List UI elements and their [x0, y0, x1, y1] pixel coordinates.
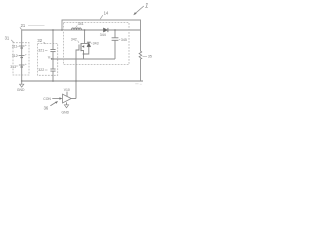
- svg-text:1: 1: [145, 4, 148, 10]
- svg-text:35: 35: [148, 55, 152, 59]
- channel bar: [80, 43, 82, 51]
- mosfet arrow: [82, 45, 84, 48]
- svg-text:341: 341: [78, 22, 84, 26]
- label 36 arrow: [44, 105, 49, 110]
- faint marks: [135, 83, 138, 85]
- wire load loop top: [62, 20, 141, 51]
- dashed box 34 booster: [64, 23, 130, 65]
- label 31: [5, 36, 10, 41]
- svg-text:344: 344: [100, 33, 106, 37]
- svg-text:GND: GND: [17, 88, 25, 92]
- svg-text:21: 21: [21, 23, 26, 28]
- source lead: [81, 51, 84, 60]
- gate bar: [78, 45, 80, 51]
- svg-text:342: 342: [71, 37, 77, 41]
- svg-text:322: 322: [38, 68, 44, 72]
- wire capacitor divider: [52, 30, 54, 50]
- svg-text:31: 31: [5, 36, 10, 41]
- wire battery string: [21, 46, 23, 81]
- svg-text:CON: CON: [43, 97, 51, 101]
- cell 312: [19, 55, 25, 57]
- node V with arrow: [48, 56, 51, 60]
- CON input arrow: [43, 97, 51, 101]
- svg-text:+: +: [25, 53, 27, 57]
- capacitor 322: [50, 68, 55, 70]
- svg-text:311: 311: [12, 44, 18, 48]
- wire top bus node 21: [22, 30, 141, 46]
- junction dot battery/gnd: [21, 80, 23, 82]
- label 14: [104, 10, 109, 15]
- capacitor 321: [50, 49, 55, 51]
- figure pointer 1: [135, 6, 144, 14]
- label V10: [64, 88, 70, 92]
- svg-text:321: 321: [38, 49, 44, 53]
- node dot at 62,30: [61, 29, 63, 31]
- bottom bus: [22, 80, 143, 82]
- resistor 35: [139, 51, 142, 59]
- inductor 341: [72, 28, 82, 30]
- svg-text:14: 14: [104, 10, 109, 15]
- dashed box 32: [38, 44, 58, 76]
- svg-text:GND: GND: [62, 110, 70, 114]
- svg-text:343: 343: [93, 42, 99, 46]
- svg-text:+: +: [25, 62, 27, 66]
- drain lead: [81, 43, 89, 45]
- cell 311: [19, 45, 25, 47]
- wire V node return line: [53, 58, 115, 60]
- wire V10 stub: [66, 92, 68, 97]
- svg-text:V: V: [48, 56, 51, 60]
- driver buffer triangle: [63, 94, 72, 103]
- svg-text:345: 345: [121, 38, 127, 42]
- mosfet 342: [71, 37, 77, 41]
- diode 343 body: [87, 41, 91, 43]
- gate wire from driver: [76, 50, 79, 99]
- label 32: [37, 38, 42, 43]
- ground buffer: [66, 102, 68, 104]
- wire buffer output: [71, 98, 76, 100]
- svg-text:313: 313: [10, 65, 16, 69]
- svg-text:32: 32: [37, 38, 42, 43]
- label 21: [21, 23, 26, 28]
- capacitor 345: [114, 30, 116, 38]
- svg-text:36: 36: [44, 105, 49, 110]
- dashed box 31 battery module: [13, 43, 29, 75]
- svg-text:312: 312: [12, 54, 18, 58]
- diode 344: [103, 28, 107, 32]
- svg-text:V10: V10: [64, 88, 70, 92]
- ground GND left: [21, 81, 23, 84]
- junction dot gate wire / bus: [75, 80, 77, 82]
- svg-text:+: +: [25, 43, 27, 47]
- cell 313: [19, 64, 25, 66]
